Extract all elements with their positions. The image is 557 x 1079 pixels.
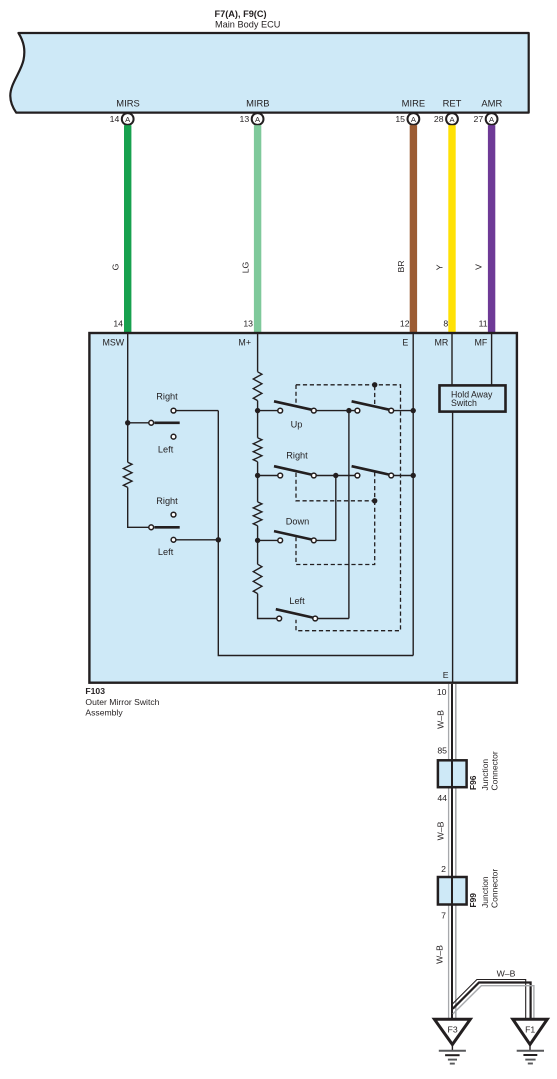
- svg-text:44: 44: [437, 793, 447, 803]
- svg-text:F1: F1: [525, 1025, 535, 1035]
- linkage node dot upper: [372, 382, 377, 387]
- switch1 MSW Right/Left: [149, 392, 180, 455]
- svg-text:28: 28: [434, 114, 444, 124]
- wire label W-B 1: [435, 710, 445, 729]
- svg-text:MIRB: MIRB: [246, 97, 269, 108]
- svg-text:Outer Mirror Switch: Outer Mirror Switch: [85, 697, 159, 707]
- linkage node dot middle: [372, 498, 377, 503]
- wire label V: [474, 264, 484, 270]
- wire W-B branch to F1 thin outline: [453, 980, 526, 1020]
- wire left bus down to bottom rail: [218, 411, 413, 656]
- switch Up contacts: [274, 401, 316, 429]
- pin 15 connector A circle: [395, 113, 419, 125]
- wire Down row: [260, 539, 336, 541]
- switch Right second pole: [352, 466, 394, 478]
- ground F1: [513, 1019, 548, 1063]
- F96 name Connector: [489, 751, 499, 790]
- pin 28 connector A circle: [434, 113, 458, 125]
- wire Up row: [260, 410, 413, 412]
- resistor R left: [123, 462, 132, 487]
- svg-text:Left: Left: [158, 547, 174, 557]
- wire G (green) MIRS to MSW: [124, 125, 131, 332]
- junction dot MSW switch1: [125, 420, 130, 425]
- svg-text:MF: MF: [474, 337, 487, 347]
- svg-text:Connector: Connector: [489, 751, 499, 790]
- wire W-B outline right: [455, 684, 457, 1020]
- ground F3: [434, 1019, 470, 1063]
- junction dot Up mid: [346, 408, 351, 413]
- resistor R1 on M+: [253, 372, 262, 401]
- svg-text:LG: LG: [240, 261, 250, 273]
- junction dot Right mid: [333, 473, 338, 478]
- wire label Y: [434, 264, 444, 270]
- wire Up junction down to Left row: [348, 411, 350, 619]
- svg-text:Up: Up: [291, 419, 303, 429]
- F96 name Junction: [480, 759, 490, 791]
- ECU block F7/F9 Main Body ECU: [10, 33, 528, 113]
- svg-text:15: 15: [395, 114, 405, 124]
- svg-text:E: E: [443, 670, 449, 680]
- junction dot left bus: [216, 537, 221, 542]
- svg-text:M+: M+: [238, 337, 251, 347]
- svg-text:MR: MR: [434, 337, 448, 347]
- switch Right contacts: [274, 451, 316, 478]
- svg-text:V: V: [474, 264, 484, 270]
- svg-text:12: 12: [400, 319, 410, 329]
- junction dot Up at E line: [411, 408, 416, 413]
- switch Up second pole: [352, 401, 394, 413]
- svg-text:AMR: AMR: [481, 97, 502, 108]
- wire label W-B 2: [435, 821, 445, 840]
- wire label W-B 3: [434, 945, 444, 964]
- svg-text:14: 14: [110, 114, 120, 124]
- junction node M+ 2: [255, 473, 260, 478]
- svg-text:Right: Right: [156, 496, 178, 506]
- wire E line down box: [412, 334, 414, 656]
- svg-text:7: 7: [441, 910, 446, 920]
- svg-text:11: 11: [479, 319, 488, 329]
- wire right-throw1 to bus: [176, 410, 218, 412]
- svg-text:14: 14: [113, 319, 123, 329]
- hold away switch box: [440, 385, 506, 411]
- svg-text:Down: Down: [286, 516, 310, 526]
- svg-text:F103: F103: [85, 686, 105, 696]
- svg-text:10: 10: [437, 687, 447, 697]
- svg-text:W–B: W–B: [435, 821, 445, 840]
- svg-text:27: 27: [474, 114, 484, 124]
- pin 13 connector A circle: [240, 113, 264, 125]
- svg-text:Assembly: Assembly: [85, 707, 123, 717]
- switch Down contacts: [274, 516, 316, 543]
- wire V (violet) AMR to MF: [488, 125, 495, 332]
- wire W-B branch gray outline: [453, 986, 534, 1020]
- svg-text:W–B: W–B: [435, 710, 445, 729]
- wire W-B black stripe: [451, 684, 453, 1020]
- wire MF line to hold away switch: [491, 334, 493, 386]
- resistor R3 on M+: [253, 502, 262, 526]
- wire W-B outline left: [448, 684, 450, 1020]
- F99 name Connector: [489, 869, 499, 908]
- svg-text:F7(A), F9(C): F7(A), F9(C): [215, 9, 267, 19]
- wire resistor left leads: [128, 423, 149, 528]
- svg-text:MIRE: MIRE: [402, 97, 425, 108]
- junction connector F96 box: [438, 760, 467, 787]
- svg-text:13: 13: [243, 319, 253, 329]
- wire MR line to hold away switch: [451, 334, 453, 386]
- wire MSW line into box: [127, 334, 129, 423]
- F103 outer mirror switch assembly box: [89, 333, 517, 683]
- svg-text:Left: Left: [289, 596, 305, 606]
- svg-text:RET: RET: [443, 97, 462, 108]
- svg-text:Switch: Switch: [451, 398, 477, 408]
- wire W-B branch black stripe: [453, 983, 531, 1020]
- svg-text:W–B: W–B: [497, 968, 516, 978]
- resistor R2 on M+: [253, 438, 262, 462]
- svg-text:85: 85: [437, 745, 447, 755]
- wire label BR: [396, 260, 406, 272]
- F99 name Junction: [480, 876, 490, 908]
- wire left-throw2 to bus: [176, 539, 218, 541]
- svg-text:Left: Left: [158, 444, 174, 454]
- junction connector F99 box: [438, 877, 467, 905]
- svg-text:E: E: [402, 337, 408, 347]
- junction node M+ 1: [255, 408, 260, 413]
- wire label G: [111, 263, 121, 270]
- svg-text:F96: F96: [468, 775, 478, 790]
- junction dot Right at E line: [411, 473, 416, 478]
- pin 27 connector A circle: [474, 113, 498, 125]
- pin 14 connector A circle: [110, 113, 134, 125]
- wire LG (light green) MIRB to M+: [254, 125, 261, 332]
- svg-text:MIRS: MIRS: [116, 97, 139, 108]
- svg-text:F3: F3: [448, 1025, 458, 1035]
- junction node M+ 3: [255, 538, 260, 543]
- svg-text:Right: Right: [156, 392, 178, 402]
- svg-text:F99: F99: [468, 893, 478, 908]
- wire Y (yellow) RET to MR: [448, 125, 455, 332]
- svg-text:G: G: [111, 263, 121, 270]
- svg-text:BR: BR: [396, 260, 406, 272]
- svg-text:8: 8: [443, 319, 448, 329]
- svg-text:Y: Y: [434, 264, 444, 270]
- svg-text:MSW: MSW: [102, 337, 124, 347]
- svg-text:Connector: Connector: [489, 869, 499, 908]
- svg-text:Right: Right: [286, 451, 308, 461]
- resistor R4 on M+: [253, 564, 262, 593]
- wire BR (brown) MIRE to E: [410, 125, 417, 332]
- switch Left contacts: [276, 596, 318, 621]
- F99 designator: [468, 893, 478, 908]
- mechanical linkage dashed Right/Down group: [296, 473, 375, 565]
- wire M+ line with resistor gaps: [258, 334, 277, 619]
- mechanical linkage dashed Up/Left group: [296, 385, 401, 631]
- wire Right junction down to Down row: [335, 476, 337, 541]
- wire Right row: [260, 475, 413, 477]
- F96 designator: [468, 775, 478, 790]
- wire hold away switch to E terminal 10: [452, 411, 454, 683]
- svg-text:W–B: W–B: [434, 945, 444, 964]
- wire label LG: [240, 261, 250, 273]
- switch2 MSW Right/Left: [149, 496, 180, 557]
- wire MSW junction to switch1 common: [128, 422, 149, 424]
- svg-text:13: 13: [240, 114, 250, 124]
- svg-text:Main Body ECU: Main Body ECU: [215, 19, 280, 29]
- wire Left row: [318, 618, 349, 620]
- svg-text:2: 2: [441, 864, 446, 874]
